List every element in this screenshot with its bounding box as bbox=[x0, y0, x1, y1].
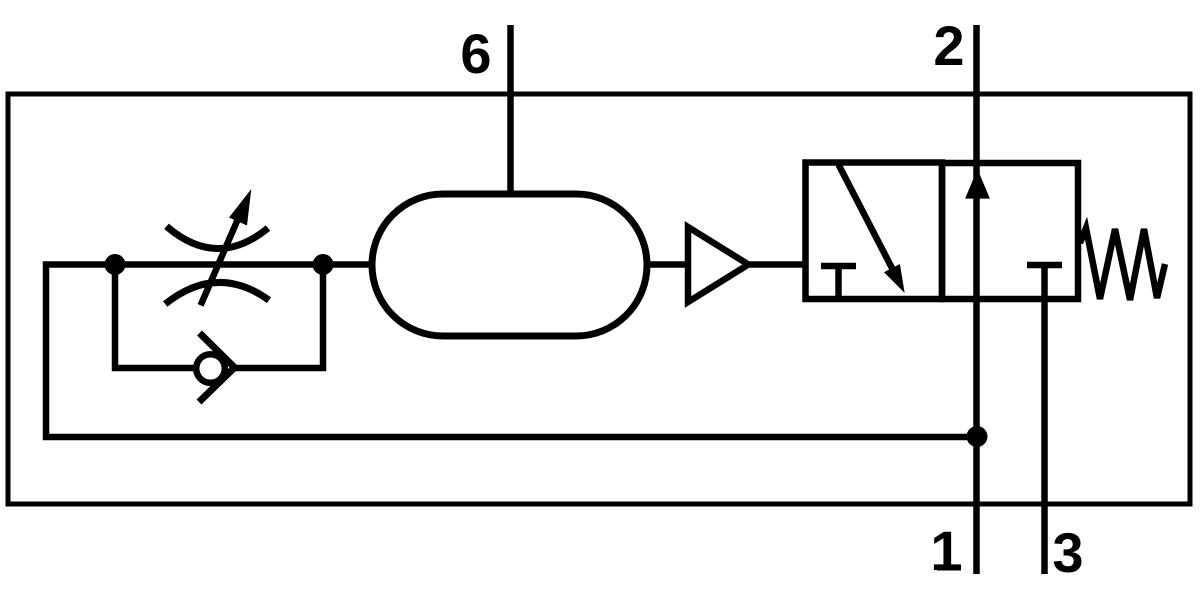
node: junction dot on feedback line at port 1 bbox=[967, 426, 988, 447]
svg-text:3: 3 bbox=[1052, 521, 1083, 584]
wire: amplifier to valve pilot bbox=[748, 261, 805, 268]
throttle F1 upper arc bbox=[167, 226, 269, 248]
valve V2 right box (rest position) bbox=[942, 163, 1078, 299]
svg-text:6: 6 bbox=[460, 22, 491, 85]
port 2 / port 1 vertical line bbox=[973, 25, 980, 574]
throttle F1 adjustment arrowhead bbox=[229, 189, 251, 226]
valve V2 left box flow path 2->3 shaft bbox=[839, 165, 892, 268]
check valve V1 ball bbox=[196, 354, 225, 383]
wire: main pilot line with feedback loop (left corner down to node) bbox=[46, 265, 977, 438]
throttle F1 lower arc bbox=[165, 282, 269, 304]
air reservoir / timing volume bbox=[372, 194, 647, 336]
port 6 stub line bbox=[507, 25, 514, 197]
valve V2 left box (actuated position) bbox=[806, 163, 943, 300]
node: junction dot left of throttle bbox=[105, 254, 126, 275]
valve V2 right box flow arrowhead (1->2) bbox=[965, 169, 990, 199]
pneumatic amplifier (booster) triangle bbox=[688, 227, 748, 302]
node: junction dot right of throttle bbox=[313, 254, 334, 275]
wire: check-valve bypass left leg bbox=[115, 265, 194, 369]
wire: reservoir to amplifier bbox=[647, 261, 688, 268]
port 3 vertical line bbox=[1041, 265, 1048, 574]
valve V2 right box blocked port T bar bbox=[1027, 262, 1062, 269]
valve V2 left box flow path arrowhead bbox=[884, 264, 905, 293]
valve V2 return spring bbox=[1080, 228, 1165, 300]
enclosure box (assembly boundary) bbox=[8, 94, 1190, 504]
svg-text:2: 2 bbox=[933, 14, 964, 77]
throttle F1 adjustment arrow shaft bbox=[201, 212, 241, 305]
foot serif of label 1 bbox=[937, 565, 961, 571]
svg-text:1: 1 bbox=[930, 519, 961, 582]
valve V2 left box blocked port T bar bbox=[821, 263, 856, 270]
check valve V1 seat bbox=[199, 333, 235, 402]
valve V2 left box blocked port T stem bbox=[835, 266, 842, 299]
wire: check-valve bypass right leg bbox=[235, 265, 324, 369]
